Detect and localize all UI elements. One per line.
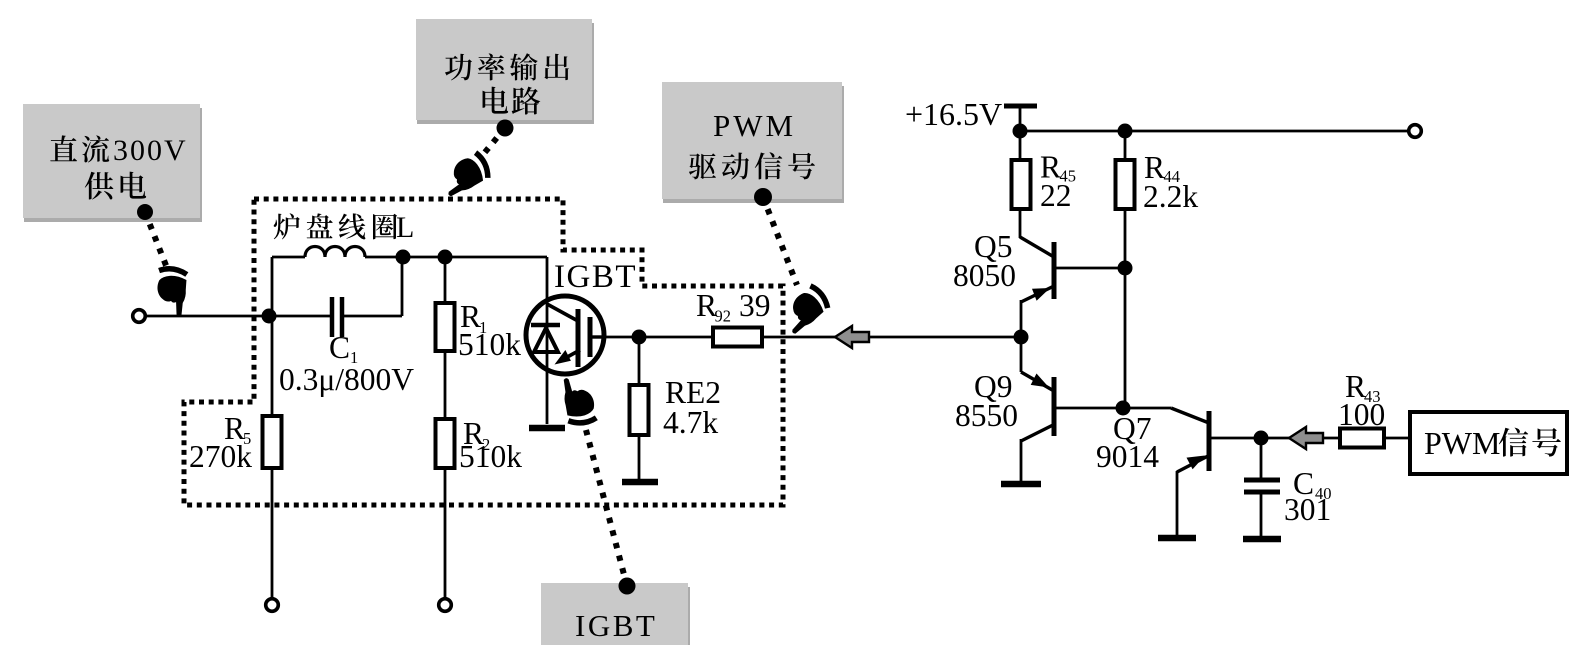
svg-text:300V: 300V bbox=[113, 134, 188, 167]
svg-text:+16.5V: +16.5V bbox=[905, 96, 1002, 132]
svg-text:510k: 510k bbox=[459, 439, 522, 474]
svg-text:L: L bbox=[396, 211, 414, 244]
svg-text:8550: 8550 bbox=[955, 398, 1018, 433]
svg-text:92: 92 bbox=[715, 307, 732, 326]
svg-text:8050: 8050 bbox=[953, 258, 1016, 293]
svg-text:22: 22 bbox=[1040, 178, 1072, 213]
svg-text:0.3μ/800V: 0.3μ/800V bbox=[279, 362, 414, 397]
svg-text:IGBT: IGBT bbox=[554, 259, 637, 295]
svg-text:PWM: PWM bbox=[1424, 425, 1500, 461]
svg-text:9014: 9014 bbox=[1096, 439, 1159, 474]
svg-text:270k: 270k bbox=[189, 439, 252, 474]
svg-text:510k: 510k bbox=[458, 327, 521, 362]
svg-text:39: 39 bbox=[739, 288, 771, 323]
svg-text:301: 301 bbox=[1284, 492, 1331, 527]
svg-text:100: 100 bbox=[1338, 397, 1385, 432]
svg-text:2.2k: 2.2k bbox=[1143, 179, 1198, 214]
svg-text:IGBT: IGBT bbox=[575, 608, 657, 643]
svg-text:PWM: PWM bbox=[713, 108, 796, 143]
svg-text:C: C bbox=[329, 330, 350, 365]
svg-text:4.7k: 4.7k bbox=[663, 405, 718, 440]
